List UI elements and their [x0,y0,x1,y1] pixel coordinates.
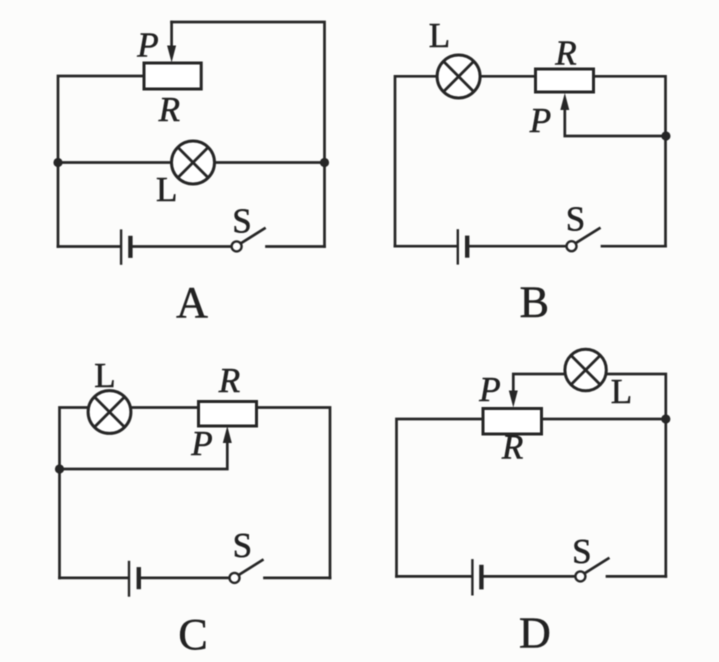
svg-text:B: B [520,277,549,326]
svg-text:L: L [611,372,632,411]
svg-text:R: R [554,33,576,72]
svg-text:L: L [156,170,177,209]
svg-text:P: P [136,26,158,65]
svg-text:S: S [232,202,251,241]
svg-text:R: R [218,361,240,400]
svg-text:S: S [233,526,252,565]
svg-text:A: A [176,278,208,327]
svg-text:L: L [94,356,115,395]
svg-text:P: P [529,101,551,140]
svg-text:P: P [478,370,500,409]
svg-text:P: P [190,424,212,463]
svg-text:C: C [178,610,207,659]
svg-text:R: R [501,427,523,466]
svg-text:S: S [572,532,591,571]
svg-text:D: D [519,609,551,658]
svg-text:L: L [429,16,450,55]
svg-text:R: R [158,90,180,129]
svg-text:S: S [566,200,585,239]
